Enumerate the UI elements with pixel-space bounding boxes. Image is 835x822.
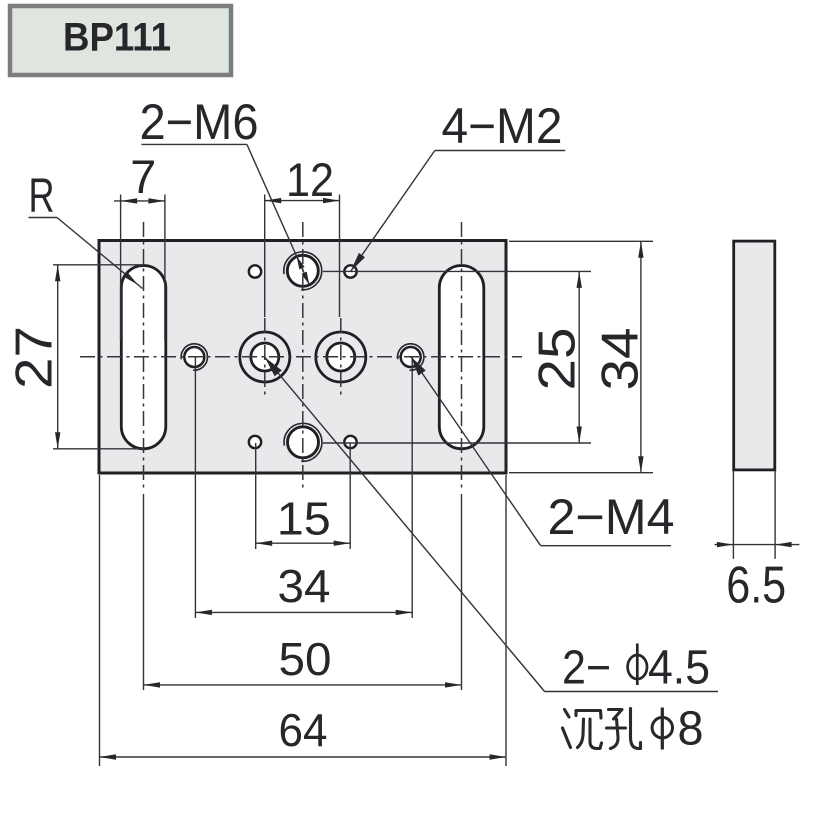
svg-text:2−M6: 2−M6 <box>140 94 259 150</box>
plate side view <box>734 241 775 470</box>
dim 15 <box>255 443 257 549</box>
M6 tapped hole top <box>287 255 318 286</box>
plate front view <box>99 241 506 474</box>
phi symbol <box>628 655 647 679</box>
centerline horizontal <box>80 356 522 358</box>
centerline left slot <box>143 222 145 492</box>
label 2-M6 leader <box>142 143 247 145</box>
svg-text:7: 7 <box>130 150 156 203</box>
svg-text:34: 34 <box>278 560 331 612</box>
svg-text:2−M4: 2−M4 <box>548 489 675 545</box>
centerline right slot <box>461 222 463 492</box>
svg-text:50: 50 <box>279 633 332 685</box>
dim 34 right <box>509 240 653 242</box>
label 2-phi4.5 leader <box>545 691 718 693</box>
M2 hole top-right <box>344 265 356 277</box>
text kong (Chinese) <box>609 710 623 720</box>
label 4-M2 leader <box>435 150 565 152</box>
svg-text:27: 27 <box>6 326 64 389</box>
svg-text:12: 12 <box>286 153 334 206</box>
dim 34 bottom <box>194 357 196 618</box>
M2 hole bottom-right <box>344 436 356 448</box>
counterbore hole left (phi4.5 cb phi8) <box>240 332 290 382</box>
svg-text:15: 15 <box>277 493 331 545</box>
M2 hole bottom-left <box>249 436 261 448</box>
M4 tapped hole right <box>401 347 421 367</box>
label 2-M4 leader <box>541 545 671 547</box>
svg-text:25: 25 <box>529 328 587 391</box>
dim 25 <box>323 270 591 272</box>
counterbore hole right (phi4.5 cb phi8) <box>316 332 366 382</box>
center mark cbore right <box>340 318 342 398</box>
text chen (Chinese) <box>565 710 570 718</box>
svg-text:4.5: 4.5 <box>648 642 710 695</box>
slot right <box>439 266 484 449</box>
dim 12 <box>264 195 266 318</box>
svg-text:2−: 2− <box>562 642 611 695</box>
label R leader <box>29 217 58 219</box>
svg-text:34: 34 <box>592 328 650 391</box>
center mark cbore left <box>264 318 266 398</box>
svg-text:4−M2: 4−M2 <box>442 98 563 154</box>
M6 tapped hole bottom <box>288 427 319 458</box>
M2 hole top-left <box>249 265 261 277</box>
dim 7 <box>120 195 122 341</box>
dim 6.5 <box>732 470 734 559</box>
dim 50 <box>143 494 145 690</box>
slot left <box>121 266 166 449</box>
svg-text:8: 8 <box>678 703 704 756</box>
svg-text:R: R <box>29 170 55 223</box>
svg-text:6.5: 6.5 <box>726 556 786 614</box>
svg-text:64: 64 <box>279 704 328 756</box>
title box BP111 <box>10 6 231 75</box>
dim 64 <box>99 475 101 766</box>
M4 tapped hole left <box>184 347 204 367</box>
dim 27 <box>53 264 143 266</box>
centerline middle <box>302 222 304 492</box>
phi symbol 8 <box>652 717 672 738</box>
svg-text:BP111: BP111 <box>63 16 171 60</box>
